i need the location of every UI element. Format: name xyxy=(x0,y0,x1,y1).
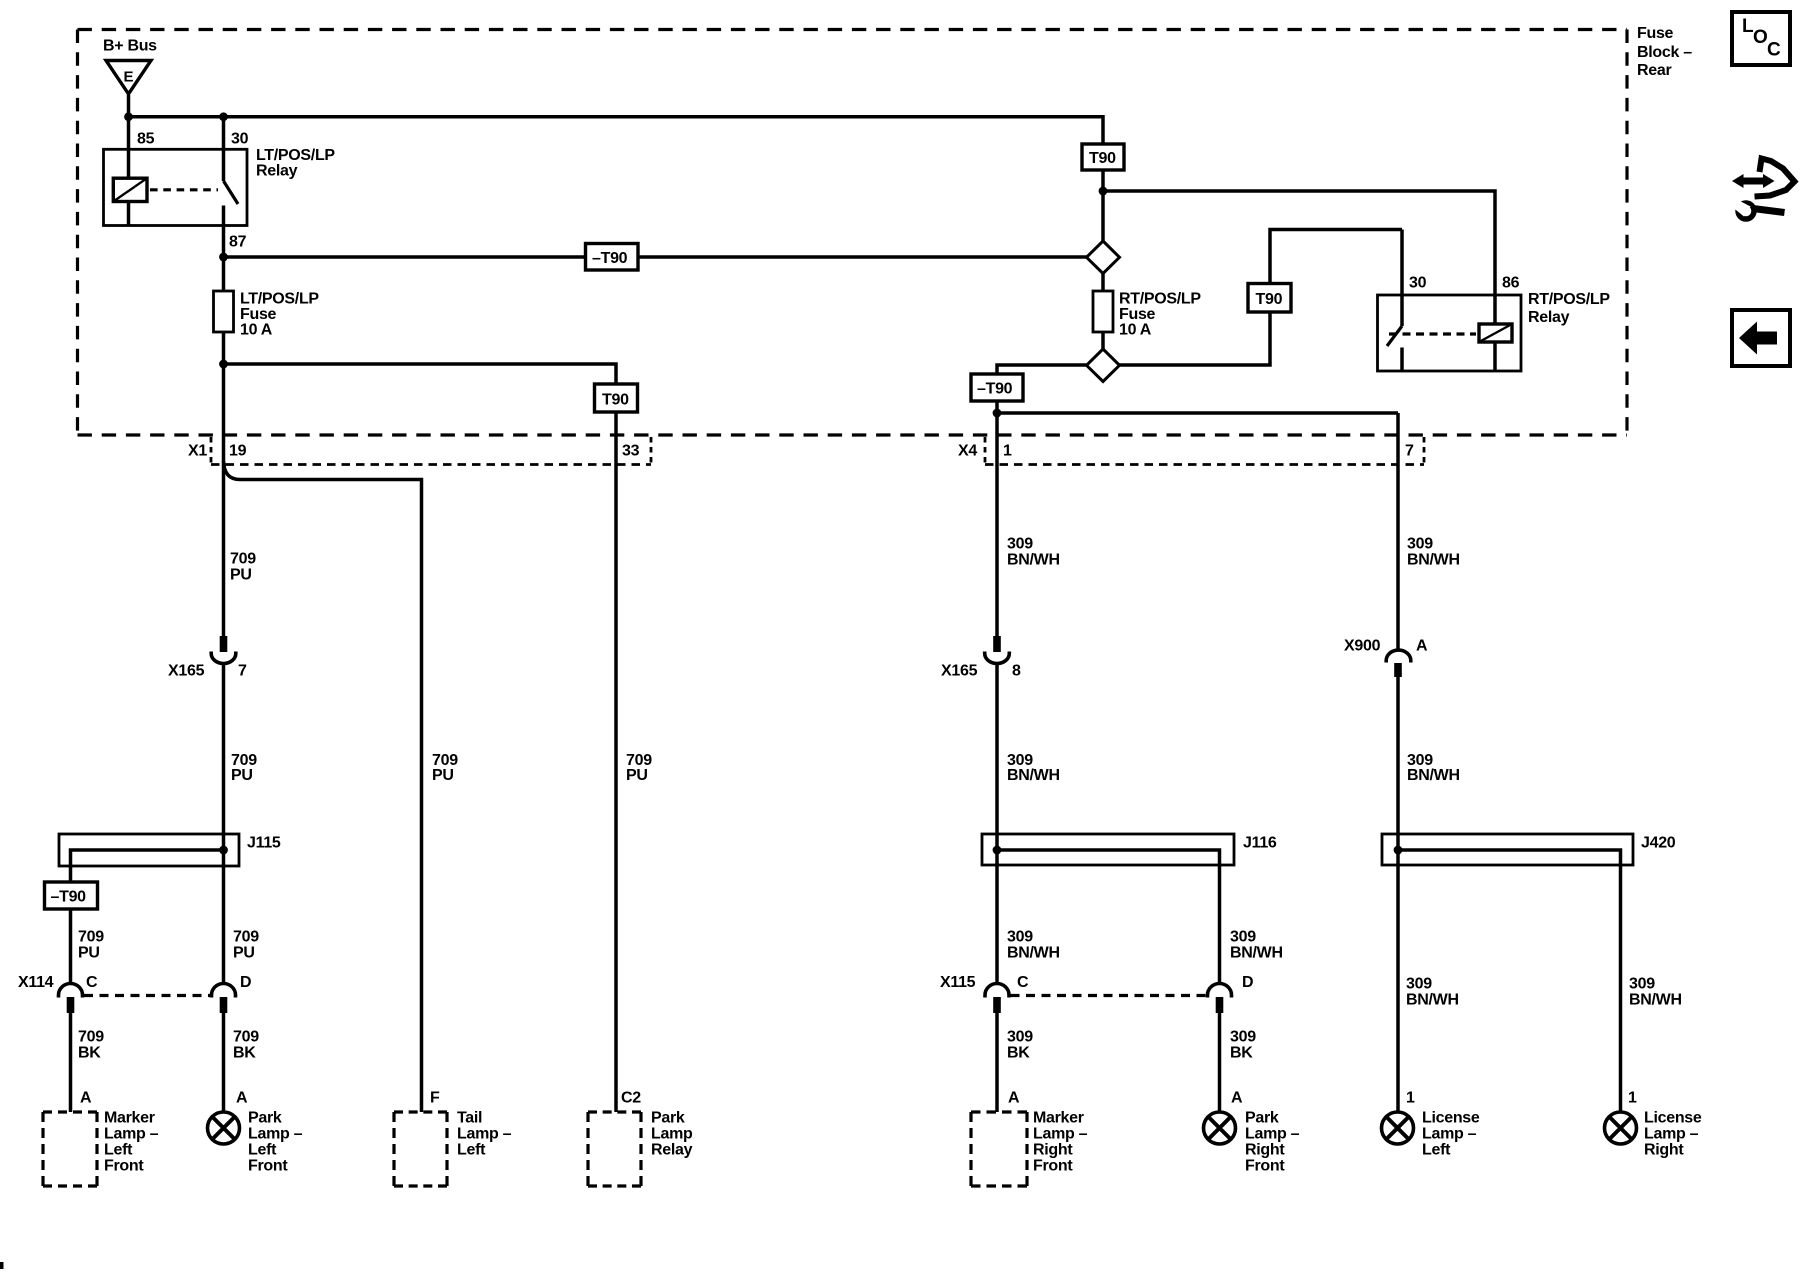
svg-text:10 A: 10 A xyxy=(1119,322,1152,339)
svg-text:Marker: Marker xyxy=(104,1110,155,1127)
svg-text:Relay: Relay xyxy=(1528,309,1570,326)
svg-text:T90: T90 xyxy=(602,392,629,409)
svg-text:BN/WH: BN/WH xyxy=(1407,767,1460,784)
svg-text:–T90: –T90 xyxy=(51,889,87,906)
svg-text:BN/WH: BN/WH xyxy=(1629,992,1682,1009)
svg-text:PU: PU xyxy=(233,945,255,962)
svg-text:License: License xyxy=(1644,1110,1702,1127)
svg-text:C2: C2 xyxy=(621,1090,641,1107)
svg-text:709: 709 xyxy=(230,551,256,568)
svg-text:309: 309 xyxy=(1007,929,1033,946)
svg-text:Park: Park xyxy=(248,1110,282,1127)
svg-text:RT/POS/LP: RT/POS/LP xyxy=(1119,291,1201,308)
svg-text:X1: X1 xyxy=(188,443,207,460)
svg-text:Marker: Marker xyxy=(1033,1110,1084,1127)
svg-text:F: F xyxy=(430,1090,440,1107)
svg-text:A: A xyxy=(1008,1090,1020,1107)
svg-text:BK: BK xyxy=(233,1045,256,1062)
svg-text:LT/POS/LP: LT/POS/LP xyxy=(240,291,319,308)
svg-text:C: C xyxy=(1767,40,1781,61)
svg-text:Lamp –: Lamp – xyxy=(104,1126,159,1143)
svg-text:19: 19 xyxy=(229,443,247,460)
svg-text:J116: J116 xyxy=(1243,835,1277,852)
svg-text:Rear: Rear xyxy=(1637,62,1671,79)
svg-text:Front: Front xyxy=(104,1158,144,1175)
svg-text:X114: X114 xyxy=(18,974,54,991)
svg-text:309: 309 xyxy=(1007,1029,1033,1046)
svg-text:Fuse: Fuse xyxy=(240,306,277,323)
svg-text:X115: X115 xyxy=(940,974,976,991)
svg-text:30: 30 xyxy=(1409,275,1427,292)
svg-text:7: 7 xyxy=(238,663,247,680)
svg-text:Left: Left xyxy=(457,1142,486,1159)
svg-text:1: 1 xyxy=(1406,1090,1415,1107)
svg-text:Lamp –: Lamp – xyxy=(1033,1126,1088,1143)
svg-text:Tail: Tail xyxy=(457,1110,482,1127)
svg-text:D: D xyxy=(1242,974,1253,991)
svg-text:8: 8 xyxy=(1012,663,1021,680)
svg-text:E: E xyxy=(124,69,134,86)
svg-text:BN/WH: BN/WH xyxy=(1007,552,1060,569)
svg-text:X165: X165 xyxy=(168,663,205,680)
svg-text:C: C xyxy=(1017,974,1029,991)
svg-text:RT/POS/LP: RT/POS/LP xyxy=(1528,291,1610,308)
svg-text:Lamp –: Lamp – xyxy=(248,1126,303,1143)
svg-text:PU: PU xyxy=(78,945,100,962)
svg-text:BN/WH: BN/WH xyxy=(1007,945,1060,962)
svg-text:BK: BK xyxy=(1230,1045,1253,1062)
svg-text:Front: Front xyxy=(1245,1158,1285,1175)
svg-text:–T90: –T90 xyxy=(977,381,1013,398)
svg-text:A: A xyxy=(236,1090,248,1107)
svg-text:709: 709 xyxy=(233,929,259,946)
svg-text:Park: Park xyxy=(651,1110,685,1127)
svg-text:Left: Left xyxy=(104,1142,133,1159)
svg-text:PU: PU xyxy=(230,567,252,584)
svg-text:Right: Right xyxy=(1644,1142,1684,1159)
svg-text:85: 85 xyxy=(137,131,155,148)
svg-text:309: 309 xyxy=(1007,536,1033,553)
svg-text:C: C xyxy=(86,974,98,991)
svg-text:709: 709 xyxy=(78,1029,104,1046)
svg-text:1: 1 xyxy=(1003,443,1012,460)
svg-text:PU: PU xyxy=(231,767,253,784)
svg-text:LT/POS/LP: LT/POS/LP xyxy=(256,147,335,164)
svg-text:Lamp –: Lamp – xyxy=(1245,1126,1300,1143)
svg-text:PU: PU xyxy=(432,767,454,784)
svg-text:X900: X900 xyxy=(1344,638,1381,655)
svg-text:10 A: 10 A xyxy=(240,322,273,339)
svg-text:BN/WH: BN/WH xyxy=(1407,552,1460,569)
svg-text:Fuse: Fuse xyxy=(1119,306,1156,323)
svg-text:86: 86 xyxy=(1502,275,1520,292)
svg-text:Right: Right xyxy=(1033,1142,1073,1159)
svg-text:309: 309 xyxy=(1407,536,1433,553)
svg-text:A: A xyxy=(80,1090,92,1107)
svg-text:Park: Park xyxy=(1245,1110,1279,1127)
svg-text:J420: J420 xyxy=(1641,835,1676,852)
svg-text:A: A xyxy=(1231,1090,1243,1107)
svg-text:BN/WH: BN/WH xyxy=(1406,992,1459,1009)
svg-text:Block –: Block – xyxy=(1637,44,1692,61)
svg-text:B+ Bus: B+ Bus xyxy=(103,38,157,55)
svg-text:Left: Left xyxy=(248,1142,277,1159)
svg-text:BK: BK xyxy=(1007,1045,1030,1062)
svg-text:30: 30 xyxy=(231,131,249,148)
svg-text:1: 1 xyxy=(1628,1090,1637,1107)
svg-text:309: 309 xyxy=(1406,976,1432,993)
svg-text:T90: T90 xyxy=(1089,150,1116,167)
svg-text:–T90: –T90 xyxy=(592,250,628,267)
svg-text:Relay: Relay xyxy=(651,1142,693,1159)
svg-text:License: License xyxy=(1422,1110,1480,1127)
svg-text:Front: Front xyxy=(248,1158,288,1175)
svg-text:Relay: Relay xyxy=(256,163,298,180)
svg-text:Lamp –: Lamp – xyxy=(1644,1126,1699,1143)
svg-text:Right: Right xyxy=(1245,1142,1285,1159)
svg-text:709: 709 xyxy=(233,1029,259,1046)
svg-text:O: O xyxy=(1753,27,1768,48)
svg-text:Fuse: Fuse xyxy=(1637,25,1674,42)
svg-text:PU: PU xyxy=(626,767,648,784)
svg-text:J115: J115 xyxy=(247,835,281,852)
svg-text:BN/WH: BN/WH xyxy=(1230,945,1283,962)
svg-text:Lamp –: Lamp – xyxy=(1422,1126,1477,1143)
svg-text:BN/WH: BN/WH xyxy=(1007,767,1060,784)
svg-text:X4: X4 xyxy=(958,443,977,460)
svg-text:309: 309 xyxy=(1230,1029,1256,1046)
svg-text:309: 309 xyxy=(1629,976,1655,993)
svg-text:X165: X165 xyxy=(941,663,978,680)
svg-text:Lamp: Lamp xyxy=(651,1126,693,1143)
svg-text:33: 33 xyxy=(622,443,640,460)
svg-text:BK: BK xyxy=(78,1045,101,1062)
svg-text:309: 309 xyxy=(1230,929,1256,946)
svg-text:D: D xyxy=(240,974,251,991)
svg-text:T90: T90 xyxy=(1256,291,1283,308)
svg-text:Front: Front xyxy=(1033,1158,1073,1175)
svg-text:Lamp –: Lamp – xyxy=(457,1126,512,1143)
svg-text:7: 7 xyxy=(1405,443,1414,460)
svg-text:87: 87 xyxy=(229,234,247,251)
svg-text:A: A xyxy=(1416,638,1428,655)
svg-text:Left: Left xyxy=(1422,1142,1451,1159)
svg-text:709: 709 xyxy=(78,929,104,946)
